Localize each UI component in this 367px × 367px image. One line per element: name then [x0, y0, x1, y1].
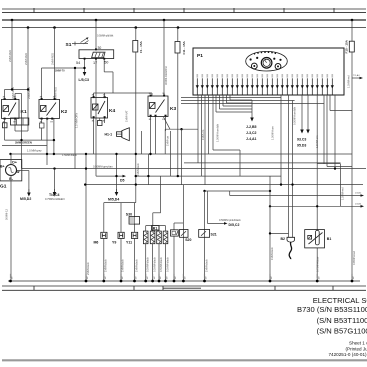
svg-text:1.50MM-orn: 1.50MM-orn: [271, 125, 275, 140]
svg-text:(Printed June 2001): (Printed June 2001): [346, 346, 367, 351]
svg-text:50MM-12: 50MM-12: [5, 208, 9, 220]
svg-text:50: 50: [104, 60, 108, 64]
svg-text:J/2,B4: J/2,B4: [355, 203, 362, 205]
svg-text:0.5MM-black: 0.5MM-black: [146, 256, 150, 272]
svg-text:1.5MM-black: 1.5MM-black: [62, 153, 78, 157]
svg-text:B2: B2: [281, 237, 286, 241]
svg-text:0.5MM-pld/blk: 0.5MM-pld/blk: [97, 34, 114, 38]
svg-text:1.5MM-orn: 1.5MM-orn: [315, 135, 319, 148]
svg-text:0.5MM-black: 0.5MM-black: [153, 256, 157, 272]
svg-text:1MM-tan: 1MM-tan: [165, 135, 169, 146]
svg-text:1M: 1M: [160, 276, 162, 279]
svg-text:95.D3: 95.D3: [297, 144, 306, 148]
svg-text:2MM GREEN: 2MM GREEN: [15, 141, 32, 145]
svg-text:R1: R1: [153, 226, 158, 230]
svg-text:J-4,A1: J-4,A1: [246, 137, 257, 141]
svg-text:B730 (S/N B53S11001 & Above): B730 (S/N B53S11001 & Above): [297, 305, 367, 314]
svg-text:1MM-black: 1MM-black: [135, 259, 139, 272]
svg-text:1M: 1M: [105, 276, 107, 279]
svg-text:D+: D+: [12, 161, 17, 165]
svg-text:1M: 1M: [154, 276, 156, 279]
svg-text:2MM-RED: 2MM-RED: [8, 50, 12, 62]
svg-text:1M: 1M: [167, 276, 169, 279]
svg-text:S21: S21: [211, 232, 217, 236]
svg-text:0.50MM-grey/tan: 0.50MM-grey/tan: [93, 165, 113, 169]
svg-text:1M: 1M: [271, 276, 273, 279]
svg-text:1M: 1M: [122, 276, 124, 279]
svg-text:P1: P1: [197, 53, 203, 59]
svg-text:S30: S30: [126, 213, 132, 217]
svg-text:2MM-70: 2MM-70: [55, 69, 65, 73]
svg-text:0.5MM-black: 0.5MM-black: [166, 256, 170, 272]
svg-text:1MM-black: 1MM-black: [121, 259, 125, 272]
svg-text:1M: 1M: [185, 276, 187, 279]
svg-text:0.50MM-orn/blk: 0.50MM-orn/blk: [293, 106, 297, 125]
svg-text:F11 - 15A: F11 - 15A: [182, 40, 186, 54]
svg-text:30MM-RED/WH: 30MM-RED/WH: [164, 66, 168, 85]
svg-text:F1 - 15A: F1 - 15A: [139, 40, 143, 53]
svg-text:1MM-black: 1MM-black: [205, 259, 209, 272]
svg-text:1M: 1M: [12, 276, 14, 279]
svg-text:ELECTRICAL SCHEMATIC: ELECTRICAL SCHEMATIC: [313, 296, 367, 305]
svg-text:J-3,C2: J-3,C2: [246, 131, 257, 135]
svg-text:1M: 1M: [206, 276, 208, 279]
svg-text:0.75MM-blue: 0.75MM-blue: [316, 256, 320, 272]
svg-text:G1: G1: [0, 184, 7, 190]
svg-text:17: 17: [93, 61, 97, 65]
svg-text:D/5,C2: D/5,C2: [229, 223, 240, 227]
svg-text:2MM-black: 2MM-black: [86, 262, 90, 275]
svg-text:B+: B+: [0, 165, 5, 169]
svg-text:K4: K4: [109, 108, 115, 114]
svg-text:54: 54: [76, 61, 80, 65]
svg-text:30: 30: [98, 46, 102, 50]
svg-text:1MM-orn: 1MM-orn: [201, 129, 205, 140]
svg-text:2MM-RED: 2MM-RED: [51, 53, 55, 65]
svg-text:7420251-0 (40-01) Printed in U: 7420251-0 (40-01) Printed in U.S.A.: [329, 352, 367, 357]
svg-text:1.0.MM-grey: 1.0.MM-grey: [27, 149, 42, 153]
svg-text:1M: 1M: [318, 276, 320, 279]
svg-text:1MM-black: 1MM-black: [136, 163, 140, 176]
svg-text:Y9: Y9: [112, 240, 116, 244]
svg-text:M6: M6: [94, 240, 99, 244]
svg-text:(S/N B53T11001 & Above): (S/N B53T11001 & Above): [317, 316, 367, 325]
svg-text:1M: 1M: [175, 276, 177, 279]
svg-text:H1-1: H1-1: [105, 133, 113, 137]
svg-text:F15 - 15A: F15 - 15A: [344, 39, 348, 53]
svg-text:93.C3: 93.C3: [297, 138, 306, 142]
svg-text:B1: B1: [327, 237, 332, 241]
svg-text:Y11: Y11: [126, 240, 132, 244]
svg-text:0.5MM-black: 0.5MM-black: [159, 256, 163, 272]
svg-text:1.5MM-red: 1.5MM-red: [347, 75, 351, 88]
svg-text:1M: 1M: [353, 276, 355, 279]
svg-text:T/1,A4: T/1,A4: [353, 74, 360, 77]
svg-text:(S/N B57G11001 & Above): (S/N B57G11001 & Above): [317, 327, 367, 336]
svg-text:1MM-black: 1MM-black: [270, 247, 274, 260]
svg-text:1M: 1M: [136, 276, 138, 279]
svg-text:1.50MM-orn/blk: 1.50MM-orn/blk: [216, 123, 220, 142]
svg-text:S20: S20: [185, 238, 191, 242]
svg-text:L/5,C3: L/5,C3: [79, 78, 90, 82]
svg-text:K2: K2: [61, 109, 67, 115]
svg-text:M/5,D4: M/5,D4: [108, 198, 119, 202]
svg-text:0.75MM-GREEN: 0.75MM-GREEN: [45, 197, 65, 201]
svg-text:K3: K3: [170, 106, 176, 112]
svg-text:1MM-black: 1MM-black: [104, 259, 108, 272]
svg-text:M/5,D2: M/5,D2: [20, 197, 31, 201]
svg-text:2MM-RED: 2MM-RED: [24, 53, 28, 65]
svg-text:0.85MM-red: 0.85MM-red: [352, 250, 356, 265]
svg-text:1MM-NAT: 1MM-NAT: [125, 110, 129, 122]
svg-text:J/2,B2: J/2,B2: [355, 193, 362, 195]
svg-text:1M: 1M: [147, 276, 149, 279]
svg-text:J-2,B5: J-2,B5: [246, 125, 257, 129]
svg-text:T/4,C4: T/4,C4: [49, 193, 60, 197]
svg-text:D5: D5: [120, 179, 125, 183]
svg-text:Sheet 1 of 2: Sheet 1 of 2: [349, 341, 367, 346]
svg-text:1M: 1M: [87, 276, 89, 279]
svg-text:0.50MM pink/black: 0.50MM pink/black: [219, 218, 241, 222]
svg-text:2MM-RED: 2MM-RED: [54, 87, 58, 99]
svg-text:1.5 MM-ORN: 1.5 MM-ORN: [75, 113, 79, 128]
svg-text:S1: S1: [66, 42, 72, 48]
svg-text:1.5MM-red: 1.5MM-red: [341, 187, 345, 200]
